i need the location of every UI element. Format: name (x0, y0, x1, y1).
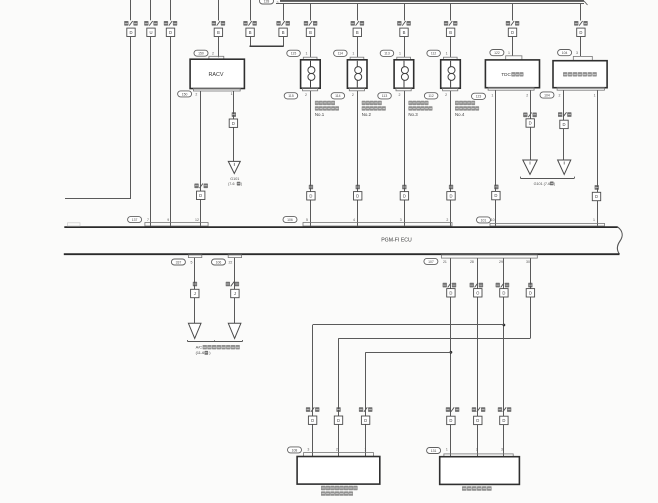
svg-text:112: 112 (428, 94, 434, 98)
terminal letter O (474, 289, 482, 297)
RACV top tab (209, 56, 224, 59)
ECU bottom tab (pins 21-30) (441, 255, 537, 258)
connector oval 114 (fuel injector No.2 bottom) (331, 93, 345, 99)
wire YEL/BLK to injector No.4 (upper) (450, 3, 452, 20)
fuel injector No.3 coil symbol (403, 61, 405, 67)
crank sensor top tab (573, 56, 592, 60)
fuel injector No.1 coil symbol (310, 61, 312, 67)
svg-text:114: 114 (338, 52, 344, 56)
svg-text:D: D (364, 418, 367, 423)
connector oval 150 (RACV bottom) (178, 91, 192, 97)
wire BLK/YEL to TDC sensor (upper) (512, 3, 514, 20)
wire color label (496, 283, 500, 288)
wire branch YEL/BRN left (366, 352, 451, 354)
wire crank pin1 to ECU pin 1 (597, 90, 599, 226)
TDC sensor box (485, 60, 539, 88)
wire fuel injector No.4 pin2 to ECU pin 2 (450, 91, 452, 227)
svg-text:137: 137 (132, 218, 138, 222)
svg-text:1: 1 (508, 51, 510, 55)
terminal letter D (229, 119, 237, 127)
terminal letter D (500, 416, 508, 424)
wire color label (397, 21, 401, 26)
wire TDC pin1 to ECU pin 10 (495, 90, 497, 226)
svg-text:9: 9 (167, 218, 169, 222)
svg-text:104: 104 (544, 93, 550, 97)
wire ECU pin21 YEL/BRN (450, 258, 452, 457)
wire RED/BLK to crank sensor (upper) (580, 3, 582, 20)
svg-text:106: 106 (287, 218, 293, 222)
fuel injector No.1 top tab (303, 57, 317, 60)
wire color label BLU/YEL (558, 112, 562, 117)
connector oval 150 (RACV top) (194, 50, 208, 56)
countershaft speed sensor top tab (304, 453, 374, 457)
terminal letter D (400, 192, 408, 200)
PGM-FI ECU top edge (64, 226, 618, 228)
connector oval 112 (fuel injector No.4 bottom) (424, 93, 438, 99)
wire color label (243, 21, 247, 26)
fuel injector No.3 box (394, 60, 414, 88)
crank sensor box (553, 61, 607, 88)
svg-text:G101: G101 (230, 177, 239, 181)
PGM-FI ECU top connector tab (pins 5-2) (303, 223, 452, 227)
wire ECU pin22 to A/C pressure sensor (234, 258, 236, 324)
svg-text:113: 113 (384, 52, 390, 56)
svg-text:U: U (149, 30, 152, 35)
terminal letter D (560, 120, 568, 128)
ECU bottom tab (pin 22) (228, 255, 241, 258)
svg-text:D: D (309, 193, 312, 198)
wire color label (276, 21, 280, 26)
svg-text:22: 22 (228, 260, 232, 264)
svg-text:D: D (169, 30, 172, 35)
svg-text:D: D (403, 193, 406, 198)
wire YEL/BLK jumper left (upper) (250, 0, 252, 21)
wire color label (444, 21, 448, 26)
svg-text:TDC: TDC (501, 72, 511, 77)
svg-text:No.4: No.4 (455, 112, 465, 117)
ground G101 triangle (crank) (558, 160, 571, 174)
wire branch GRN/WHT left (313, 324, 504, 326)
terminal letter B (279, 28, 287, 36)
connector oval 122 (TDC top) (490, 50, 504, 56)
wire color label (528, 283, 532, 288)
wire jumper left leg (250, 37, 252, 47)
terminal letter D (166, 28, 174, 36)
fuel injector No.3 label text (408, 101, 412, 105)
ground G101 (RACV) (228, 161, 240, 173)
wire color label (449, 185, 453, 190)
connector oval 128 (top bus feed) (260, 0, 274, 4)
wire color label BLU (494, 185, 498, 190)
terminal letter J (231, 289, 239, 297)
svg-text:21: 21 (443, 260, 447, 264)
wire color label ORN (193, 282, 197, 287)
svg-text:107: 107 (428, 260, 434, 264)
wire color label (351, 21, 355, 26)
fuel injector No.4 coil symbol (450, 61, 452, 67)
wire color label (506, 21, 510, 26)
connector oval 131 (MAP sensor) (427, 448, 441, 454)
svg-text:30: 30 (526, 260, 530, 264)
fuel injector No.2 top tab (350, 57, 364, 60)
svg-text:D: D (502, 418, 505, 423)
fuel injector No.3 bottom tab (396, 88, 411, 91)
connector oval 137 (ECU top) (128, 217, 142, 223)
svg-text:B: B (356, 30, 359, 35)
wire YEL/BLK to RACV (upper) (218, 0, 220, 21)
ground bracket G101 (520, 178, 574, 180)
svg-text:7: 7 (147, 218, 149, 222)
svg-text:D: D (449, 193, 452, 198)
svg-text:D: D (311, 418, 314, 423)
svg-text:B: B (282, 30, 285, 35)
fuel injector No.2 bottom tab (349, 88, 364, 91)
svg-text:D: D (476, 418, 479, 423)
svg-text:2: 2 (195, 92, 197, 96)
svg-text:1: 1 (593, 218, 595, 222)
wire color label GRN/BLU (MAP pin2) (472, 407, 476, 412)
svg-text:5: 5 (306, 218, 308, 222)
fuel injector No.4 box (441, 60, 461, 88)
wire color label BLU/RED (194, 184, 198, 189)
wire 218.4 to RACV (218, 37, 220, 58)
svg-text:1: 1 (306, 51, 308, 55)
wire color label (164, 21, 168, 26)
wire color label YEL/BRN (speed sensor pin1) (359, 407, 363, 412)
svg-text:2: 2 (399, 93, 401, 97)
svg-text:2: 2 (336, 448, 338, 452)
svg-text:3: 3 (400, 218, 402, 222)
svg-text:104: 104 (562, 51, 568, 55)
off-page arrow (A/C right) (228, 323, 241, 338)
svg-text:D: D (511, 30, 514, 35)
terminal letter J (191, 289, 199, 297)
svg-text:114: 114 (335, 94, 341, 98)
wire jumper bottom bar (250, 45, 284, 47)
svg-text:D: D (129, 30, 132, 35)
svg-text:115: 115 (291, 52, 297, 56)
svg-text:122: 122 (494, 51, 500, 55)
svg-text:29: 29 (499, 260, 503, 264)
terminal letter B (446, 28, 454, 36)
connector oval 113 (fuel injector No.3 top) (380, 50, 394, 56)
wire ECU pin5 to A/C pressure sensor (194, 258, 196, 324)
wire color label (574, 21, 578, 26)
wire into injector at x=310.5 (310, 37, 312, 58)
svg-text:3: 3 (307, 448, 309, 452)
off-page arrow (A/C left) (188, 323, 201, 338)
svg-text:J: J (194, 291, 196, 296)
svg-text:RACV: RACV (209, 72, 224, 78)
wire color label YEL/BRN (MAP pin1) (446, 407, 450, 412)
svg-text:2: 2 (526, 94, 528, 98)
svg-text:115: 115 (288, 94, 294, 98)
MAP sensor label (462, 486, 467, 490)
connector oval 114 (fuel injector No.2 top) (334, 50, 348, 56)
wire top bus lower line (276, 3, 584, 5)
connector oval 112 (fuel injector No.4 top) (427, 50, 441, 56)
svg-text:D: D (579, 30, 582, 35)
wire into TDC sensor (512, 37, 514, 56)
connector oval 123 (TDC bottom) (472, 93, 486, 99)
svg-text:2: 2 (305, 93, 307, 97)
svg-text:2: 2 (446, 218, 448, 222)
PGM-FI ECU faint left tab (68, 223, 81, 226)
terminal letter D (334, 416, 342, 424)
svg-text:No.3: No.3 (408, 112, 418, 117)
wire WHT/BLK (upper) (150, 0, 152, 20)
svg-text:2: 2 (476, 448, 478, 452)
svg-text:No.2: No.2 (362, 112, 372, 117)
wire into crank sensor (580, 37, 582, 57)
ground G101 triangle (TDC) (523, 160, 537, 174)
svg-text:106: 106 (216, 260, 222, 264)
svg-text:D: D (337, 418, 340, 423)
wire color label (356, 185, 360, 190)
countershaft speed sensor box (297, 457, 380, 485)
wire ECU pin28 GRN/BLU (477, 258, 479, 457)
wire color label (470, 283, 474, 288)
fuel injector No.2 box (347, 60, 367, 88)
wire RACV pin2 to ECU pin 12 (200, 91, 202, 226)
svg-text:112: 112 (431, 52, 437, 56)
fuel injector No.1 label text (315, 101, 319, 105)
TDC sensor bottom tab (488, 88, 534, 91)
svg-text:D: D (232, 121, 235, 126)
connector oval 113 (fuel injector No.3 bottom) (378, 93, 392, 99)
wire 131 lower segment with jog to ECU left (130, 37, 132, 200)
fuel injector No.1 box (301, 60, 321, 88)
svg-text:1: 1 (352, 51, 354, 55)
fuel injector No.1 bottom tab (303, 88, 318, 91)
svg-text:3: 3 (501, 448, 503, 452)
svg-text:337: 337 (176, 260, 182, 264)
terminal letter B (306, 28, 314, 36)
svg-text:10: 10 (491, 218, 495, 222)
svg-text:108: 108 (292, 448, 298, 452)
terminal letter D (307, 192, 315, 200)
svg-text:G101 (7-6: G101 (7-6 (534, 182, 551, 186)
svg-text:B: B (403, 30, 406, 35)
terminal letter B (246, 28, 254, 36)
terminal letter D (526, 119, 534, 127)
svg-text:150: 150 (182, 92, 188, 96)
svg-text:1: 1 (446, 51, 448, 55)
svg-text:2: 2 (352, 93, 354, 97)
terminal letter B (214, 28, 222, 36)
terminal letter D (492, 191, 500, 199)
countershaft speed sensor label (321, 486, 325, 490)
terminal letter B (400, 28, 408, 36)
terminal letter D (500, 289, 508, 297)
svg-text:A/C: A/C (196, 345, 203, 350)
connector oval 108 (speed sensor) (288, 447, 302, 453)
terminal letter D (447, 416, 455, 424)
terminal letter D (508, 28, 516, 36)
wire fuel injector No.1 pin2 to ECU pin 5 (310, 91, 312, 227)
wire color label (124, 21, 128, 26)
PGM-FI ECU torn right edge (617, 227, 622, 254)
svg-text:D: D (356, 193, 359, 198)
PGM-FI ECU top connector tab (pins 7-12) (145, 223, 208, 227)
wire color label GRN/WHT (MAP pin3) (498, 407, 502, 412)
svg-text:): ) (554, 182, 555, 186)
wire fuel injector No.3 pin2 to ECU pin 3 (404, 91, 406, 227)
svg-text:J: J (234, 291, 236, 296)
A/C bracket (188, 341, 242, 343)
wire YEL/BLK jumper right (upper) (283, 3, 285, 20)
svg-text:B: B (249, 30, 252, 35)
connector oval 101 (ECU top) (477, 217, 491, 223)
svg-text:113: 113 (382, 94, 388, 98)
wire color label BLU (595, 185, 599, 190)
wire color label (309, 185, 313, 190)
MAP sensor box (440, 457, 520, 485)
wire color label BRN/BLU (523, 113, 527, 118)
RACV bottom tab (193, 89, 240, 92)
terminal letter U (147, 28, 155, 36)
fuel injector No.2 label text (362, 101, 366, 105)
svg-text:28: 28 (470, 260, 474, 264)
svg-text:D: D (595, 194, 598, 199)
terminal letter D (447, 289, 455, 297)
svg-text:D: D (529, 290, 532, 295)
svg-text:(7-6: (7-6 (228, 182, 234, 186)
terminal letter D (474, 416, 482, 424)
svg-text:1: 1 (231, 92, 233, 96)
wire into injector at x=357.3 (357, 37, 359, 58)
svg-text:1: 1 (491, 94, 493, 98)
wire color label (144, 21, 148, 26)
svg-text:12: 12 (195, 218, 199, 222)
connector oval 337 (ECU bottom) (171, 259, 185, 265)
svg-text:128: 128 (264, 0, 270, 3)
svg-text:): ) (241, 182, 242, 186)
connector oval 104 (crank top) (558, 50, 572, 56)
TDC sensor top tab (506, 56, 522, 60)
svg-text:2: 2 (445, 93, 447, 97)
wire RACV pin1 to ground (233, 91, 235, 161)
wire fuel injector No.2 pin2 to ECU pin 4 (357, 91, 359, 227)
svg-text:101: 101 (481, 218, 487, 222)
terminal letter D (308, 416, 316, 424)
wire color label BLU (speed sensor pin2) (336, 407, 340, 412)
wire color label (402, 185, 406, 190)
wire YEL/BLK to injector No.1 (upper) (310, 3, 312, 20)
svg-text:1: 1 (399, 51, 401, 55)
svg-text:5: 5 (191, 260, 193, 264)
crank sensor bottom tab (557, 88, 604, 91)
wire TDC pin2 to ground (530, 90, 532, 160)
wire color label BLK (232, 112, 236, 117)
svg-text:1: 1 (446, 448, 448, 452)
terminal letter D (592, 192, 600, 200)
svg-text:B: B (309, 30, 312, 35)
wire crank pin2 to ground (563, 90, 565, 160)
svg-text:2: 2 (212, 52, 214, 56)
wire RED/BLK (upper) (170, 0, 172, 20)
svg-text:2: 2 (559, 94, 561, 98)
junction ECU pin29 / speed sensor branch (503, 324, 506, 327)
terminal letter D (526, 289, 534, 297)
wire color label GRN/WHT (speed sensor pin3) (306, 407, 310, 412)
wire jumper right leg (283, 37, 285, 47)
svg-text:D: D (562, 122, 565, 127)
wire RED/BLK to ECU pin 7 area (upper) (130, 0, 132, 20)
terminal letter D (361, 416, 369, 424)
svg-text:D: D (529, 121, 532, 126)
fuel injector No.2 coil symbol (356, 61, 358, 67)
svg-text:D: D (494, 193, 497, 198)
junction ECU pin21 / speed sensor branch (450, 351, 453, 354)
wire 151 to ECU pin 7 (150, 37, 152, 227)
fuel injector No.4 bottom tab (443, 88, 458, 91)
svg-text:D: D (502, 290, 505, 295)
connector oval 107 (ECU bottom) (424, 258, 438, 264)
svg-text:B: B (449, 30, 452, 35)
wire color label BLK/RED (226, 282, 230, 287)
wire color label (443, 283, 447, 288)
svg-text:No.1: No.1 (315, 112, 325, 117)
terminal letter D (354, 192, 362, 200)
terminal letter D (127, 28, 135, 36)
wire branch BLU left (corner) (339, 338, 531, 340)
PGM-FI ECU top connector tab (pins 10-1) (490, 223, 605, 226)
PGM-FI ECU bottom edge (64, 253, 620, 255)
ECU bottom tab (pin 5) (188, 255, 201, 258)
connector oval 115 (fuel injector No.1 top) (287, 50, 301, 56)
svg-text:131: 131 (431, 449, 437, 453)
svg-text:(11-6: (11-6 (196, 351, 205, 355)
wire top bus upper line (280, 0, 584, 2)
terminal letter D (447, 192, 455, 200)
svg-text:3: 3 (576, 51, 578, 55)
connector oval 104 (crank bottom) (540, 92, 554, 98)
wire YEL/BLK to injector No.2 (upper) (357, 3, 359, 20)
wire color label (304, 21, 308, 26)
svg-text:123: 123 (476, 95, 482, 99)
svg-text:1: 1 (364, 448, 366, 452)
wire 170.5 to ECU pin 9 (170, 37, 172, 227)
svg-text:PGM-FI ECU: PGM-FI ECU (381, 238, 412, 244)
fuel injector No.4 label text (455, 101, 459, 105)
wire into injector at x=404.0 (404, 37, 406, 58)
terminal letter D (197, 191, 205, 199)
svg-text:1: 1 (594, 94, 596, 98)
connector oval 106 (ECU top) (283, 217, 297, 223)
svg-text:150: 150 (198, 52, 204, 56)
RACV valve box (190, 59, 244, 88)
svg-text:B: B (217, 30, 220, 35)
wire ECU pin30 BLU (530, 258, 532, 338)
MAP sensor top tab (444, 454, 513, 457)
connector oval 115 (fuel injector No.1 bottom) (284, 93, 298, 99)
svg-text:D: D (449, 418, 452, 423)
fuel injector No.3 top tab (397, 57, 411, 60)
svg-text:4: 4 (353, 218, 355, 222)
svg-text:D: D (199, 193, 202, 198)
wire ECU pin29 GRN/WHT (503, 258, 505, 457)
terminal letter B (353, 28, 361, 36)
fuel injector No.4 top tab (443, 57, 457, 60)
wire YEL/BLK to injector No.3 (upper) (404, 3, 406, 20)
svg-text:D: D (449, 290, 452, 295)
terminal letter D (577, 28, 585, 36)
wire into injector at x=450.6 (450, 37, 452, 58)
connector oval 106 (ECU bottom) (212, 259, 226, 265)
wire color label (212, 21, 216, 26)
